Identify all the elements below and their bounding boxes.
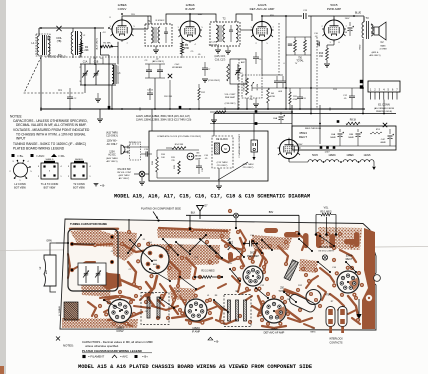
wire E1 drop [383,100,385,114]
wire cluster drop [154,78,156,109]
copper trace 6 [146,276,157,296]
svg-text:470K: 470K [270,96,276,98]
clock circuits box [149,131,268,181]
capacitor C17 pcb [249,241,251,247]
copper trace 17 [108,312,142,320]
svg-text:120V: 120V [298,144,303,146]
copper trace 7 [170,262,180,286]
svg-text:(A15 &: (A15 & [372,51,379,54]
svg-text:12AV6: 12AV6 [364,154,372,157]
svg-text:LAMP: LAMP [195,158,201,161]
svg-text:IF 455KC: IF 455KC [156,20,165,22]
volume control box [242,75,262,98]
svg-text:T2 CONN: T2 CONN [73,182,85,186]
svg-text:CONV: CONV [118,7,127,11]
capacitor C5 div [288,43,292,45]
tube V3 12AV6 det-AVC-AF amp [253,22,272,41]
crossover X1 [56,26,61,31]
svg-text:(C15 THRU: (C15 THRU [217,162,228,164]
ground T1 [153,49,159,51]
pad 49 [356,318,360,322]
legend B+ symbol [12,154,15,157]
svg-text:110V: 110V [345,18,350,20]
svg-text:VOLUME: VOLUME [244,82,246,92]
interlock contact 2 [338,307,347,327]
svg-text:T1 & T2 CONN: T1 & T2 CONN [41,182,59,186]
svg-text:ON-OFF SW: ON-OFF SW [117,169,131,171]
pad 40 [350,266,354,270]
wire 35w4 b [319,105,321,144]
svg-text:12AV6, 12BA6, 12BE6, 35W4, 50C: 12AV6, 12BA6, 12BE6, 35W4, 50C5 (A15, A1… [136,115,190,118]
copper trace 25 [348,296,358,316]
pad 38 [314,268,318,272]
tube V2 12BA6 IF amplifier [180,21,200,41]
pad 3 [110,235,114,239]
wire L1 gnd drop [40,55,42,109]
wire T1 gnd [155,46,157,49]
svg-text:= AVC: = AVC [36,154,45,158]
wire grid rail [100,32,102,55]
capacitor C9 v3 [253,56,259,58]
pad 54 [295,231,299,235]
pad 42 [94,314,98,318]
svg-text:ANT: ANT [45,269,48,274]
wire plug to box lower [128,151,141,153]
svg-text:ON VOL CONT: ON VOL CONT [117,172,132,174]
svg-text:(C15 THRU: (C15 THRU [243,164,254,166]
capacitor C4a sym [147,92,153,94]
svg-text:PLATED CHASSIS BOARD WIRING LE: PLATED CHASSIS BOARD WIRING LEGEND [82,349,142,353]
pad 20 [304,273,308,277]
corner mark [0,366,4,374]
pad 14 [262,270,266,274]
svg-text:BOT VIEW: BOT VIEW [73,187,85,190]
svg-text:R10: R10 [319,53,324,55]
svg-text:470K: 470K [325,295,331,297]
svg-text:MODEL A15, A16, A17, C15, C16,: MODEL A15, A16, A17, C15, C16, C17, C18 … [114,194,310,200]
copper trace 24 [330,294,344,306]
svg-text:C1A: C1A [83,61,88,64]
resistor R3 screen [180,42,183,54]
svg-text:DECIMAL VALUES IN MF, ALL OTHE: DECIMAL VALUES IN MF, ALL OTHERS IN MMF. [16,123,87,127]
svg-text:DE CLOCK: DE CLOCK [216,139,228,141]
IF transformer T2 box [210,22,240,46]
svg-text:40MF: 40MF [380,142,386,144]
wire t1 drop2 [169,80,171,109]
pad 33 [208,298,212,302]
heater coil 12AV6 [360,160,374,162]
svg-text:(A15 THRU: (A15 THRU [119,174,130,177]
svg-text:C6A: C6A [273,117,278,120]
wire T2 out to V3 [236,14,252,22]
wire outlet [253,152,255,160]
wire V3 cath [261,41,263,75]
svg-text:IF AMP: IF AMP [192,331,201,334]
ground switch [139,181,145,183]
svg-text:12BA6: 12BA6 [328,154,336,157]
copper bottom row traces [100,296,130,298]
heater coil 50C5 [308,160,322,162]
resistor R16 [156,157,159,172]
pad 11 [192,276,196,280]
svg-text:= B+: = B+ [17,154,24,158]
svg-text:IF AMP: IF AMP [185,7,195,11]
svg-text:(C18 ONLY): (C18 ONLY) [225,103,236,105]
svg-text:95V: 95V [131,14,135,16]
pad 27 [260,252,264,256]
copper trace 1 [72,244,112,245]
copper trace 18 [152,306,178,310]
neon lamp B6 [187,153,194,160]
wire V1 plate to T1 [122,16,151,24]
wire clock drop [218,168,220,185]
copper trace 12 [278,246,288,264]
wire clock box top [149,146,157,148]
T4 inner pads [148,251,153,256]
svg-text:(A15, C15,: (A15, C15, [215,55,226,58]
svg-text:R5 1 MEG: R5 1 MEG [320,210,331,213]
svg-text:TUNING RANGE - 540KC TO 1620KC: TUNING RANGE - 540KC TO 1620KC (IF - 455… [13,142,86,146]
svg-text:C19 ONLY): C19 ONLY) [243,167,254,169]
connector T2 CONN [71,163,87,179]
C13 cap bars [147,297,150,318]
wire heater right drop [373,162,375,166]
copper dither mid right [252,235,292,250]
pad 31 [160,294,164,298]
pad ring V4 socket [265,277,269,281]
wire B+ horizontal [252,87,363,89]
svg-text:C18 ONLY: C18 ONLY [209,45,220,47]
svg-text:C6A: C6A [331,133,336,136]
svg-text:SHIELD: SHIELD [46,159,54,161]
svg-text:R8 1K: R8 1K [350,120,357,122]
svg-text:PER SHIP: PER SHIP [225,97,236,99]
pad 29 [198,275,202,279]
legend2 B- [208,337,213,340]
copper dither bottom mid [170,287,196,301]
wire gang drop [111,85,113,109]
wire antenna top [39,27,104,29]
copper pad extras [127,230,131,234]
copper bottom squiggles 2 [88,302,96,316]
T2 windings [216,25,218,42]
svg-text:NEON: NEON [195,156,202,158]
pad 15 [284,262,288,266]
electrolytic C4C [388,135,393,137]
pad 47 [280,296,284,300]
svg-text:B6V: B6V [269,211,274,214]
copper trace strip top edge [159,228,227,231]
wire switch [134,173,139,175]
AVC drop dashed 3 [316,37,318,109]
copper notch hole [374,275,381,282]
clock box dashed [212,136,233,168]
volume pot bracket [288,293,317,313]
capacitor C10 v4 [317,42,319,46]
wire c11 stub [299,88,301,92]
svg-text:22K: 22K [84,49,89,52]
legend AVC symbol [31,154,34,157]
electrolytic C6B [356,133,361,135]
wire top rail link [262,15,302,17]
trimmer C1B [95,64,97,73]
svg-text:(AS VIEWED FROM: (AS VIEWED FROM [374,107,394,110]
wire e7 drop [235,218,237,228]
ground gang [95,98,101,100]
wire filter box bus [292,145,396,147]
svg-text:CONTACTS: CONTACTS [330,342,343,345]
copper trace 26 [240,230,246,250]
connector L2 bracket [50,243,56,292]
wire B- stub [99,109,101,118]
wire v5 link [288,159,290,162]
resistor R14 [172,147,186,150]
ground clock [216,185,222,187]
wire B+ red drop [362,39,364,114]
copper dither right patch [318,227,362,250]
ganging dashes C1 [24,57,85,93]
PCB board outline [60,219,376,330]
svg-text:470K: 470K [293,99,298,101]
tube V5 35W4 rectifier [280,140,299,159]
svg-text:PWR AMP: PWR AMP [247,255,259,258]
pad 48 [350,288,354,292]
svg-text:COMPLETE CLOCK (C15 THRU C19 O: COMPLETE CLOCK (C15 THRU C19 ONLY) [157,136,201,138]
copper trace 15 [340,250,356,262]
crossover X2 [168,74,172,78]
copper trace 4 [122,244,148,252]
tube V4 50C5 power amp [324,20,344,40]
pad 46 [266,292,270,296]
resistor R17 line [215,111,226,113]
svg-text:ON-OFF SW: ON-OFF SW [319,247,333,249]
wire heater left [289,161,308,163]
pad 41 [98,304,102,308]
ground R10 [324,63,330,65]
plus mark bottom left [56,337,60,341]
capacitor C13 coupling [303,13,305,19]
pad 50 [328,320,332,324]
copper wavy right of mass [240,238,244,266]
resistor R6 divider [294,40,297,52]
svg-text:PLATED BOARD WIRING LEGEND: PLATED BOARD WIRING LEGEND [13,147,65,151]
copper dither bottom strip [62,318,138,328]
copper wavy center bottom [146,282,154,306]
svg-text:M: M [224,147,226,151]
filter box [292,126,396,150]
svg-text:A16 ONLY): A16 ONLY) [369,54,380,57]
pad 19 [301,267,305,271]
pad ring T4 can [168,266,172,270]
svg-text:WORKER: WORKER [172,67,182,69]
svg-text:ON VOL CONTR: ON VOL CONTR [318,251,334,253]
svg-text:C4C: C4C [381,139,386,141]
svg-text:= FILAMENT: = FILAMENT [88,355,105,359]
connector E1 pins [370,92,372,100]
resistor R1 39K [101,45,112,48]
switch S1 on-off [139,171,145,177]
wire det drop [237,84,239,109]
page left margin strip [0,0,6,374]
wire 35w4 plate [291,105,293,139]
ground v3 [253,103,259,105]
svg-text:RECT: RECT [346,258,353,261]
svg-text:C19 ONLY): C19 ONLY) [106,136,118,138]
capacitor c12 sym [349,95,355,97]
heater coil 12BA6 [325,160,339,162]
svg-text:R3 2.2M: R3 2.2M [164,96,172,98]
pad 6 [120,242,124,246]
pad 24 [232,267,236,271]
ground mid1 [202,78,208,80]
svg-text:C 202: C 202 [211,42,218,44]
svg-text:RED: RED [360,44,362,49]
pad 13 [242,248,246,252]
AVC drop dashed 1 [238,59,240,109]
heater coil 12BE6 [343,160,357,162]
svg-text:BLUE: BLUE [355,13,361,15]
copper pill 7 [264,228,278,233]
copper trace 21 [258,296,262,316]
trimmer C1A [84,64,86,73]
wire rail tops [285,16,287,37]
svg-text:NOTES:: NOTES: [63,344,74,348]
copper trace 9 [216,256,238,262]
svg-text:BLK: BLK [191,211,196,214]
svg-text:AC-DC: AC-DC [108,154,116,157]
copper trace 22 [282,306,300,320]
pad 1 [70,242,74,246]
speaker SP1 [374,27,379,35]
copper trace 29 [68,254,70,278]
pad ring V2 socket [208,311,212,315]
resistor R15 [178,161,181,174]
pad 4 [110,260,114,264]
resistor R4b [267,88,270,103]
resistor R10 cathode [326,48,329,60]
copper trace 19 [186,318,212,322]
resistor R4 [227,64,230,81]
pad 16 [316,232,320,236]
svg-text:C6B: C6B [349,134,354,136]
box det components [230,59,246,84]
capacitor C2b [67,96,73,98]
pad 28 [268,244,272,248]
legend FIL symbol [51,154,57,157]
wire T3 top [358,15,364,17]
svg-text:TO CHASSIS WITH A VTVM. ± 10%: TO CHASSIS WITH A VTVM. ± 10% NO SIGNAL [16,133,86,137]
label frame pads [71,243,73,245]
svg-text:(A15 THRU: (A15 THRU [106,132,118,135]
svg-text:A17 ONLY): A17 ONLY) [106,160,117,163]
svg-text:BOT VIEW: BOT VIEW [14,187,26,190]
copper dither tuning frame top [70,229,118,247]
coil L3 [112,65,114,84]
wire rail A [285,37,287,109]
svg-text:L2 CONN: L2 CONN [14,182,25,186]
svg-text:INTERLOCK: INTERLOCK [329,338,343,341]
copper right border band [362,228,375,329]
svg-text:C4 .05: C4 .05 [147,90,154,92]
svg-text:C19 ONLY): C19 ONLY) [217,165,228,167]
resistor R8 [346,122,360,125]
copper trace 27 [296,232,306,250]
copper screw hole [366,295,372,301]
resistor RY1 wavy [370,132,382,134]
tuning frame outline [68,229,118,291]
resistor R11b [289,92,291,104]
svg-text:VOLTAGES - MEASURED FROM POINT: VOLTAGES - MEASURED FROM POINT INDICATED [13,128,90,132]
arrow plating [153,212,158,220]
copper pill 3 [330,234,336,248]
wire feed x152 [151,109,153,131]
pad 2 [70,268,74,272]
copper trace 8 [186,258,196,278]
svg-text:CONV: CONV [116,330,124,333]
svg-text:120V: 120V [324,152,330,154]
svg-text:(C18 ONLY): (C18 ONLY) [208,80,220,82]
interlock stems [329,327,332,334]
copper dither center mass [148,244,220,280]
copper pill 6 [228,252,233,261]
capacitor C15b [196,165,202,167]
copper trace 11 [258,250,266,272]
svg-text:470K: 470K [184,48,190,50]
wire drop x129 [128,219,130,231]
fold line [0,247,428,251]
svg-text:100V: 100V [198,14,203,16]
pad 22 [190,228,194,232]
wire bus left end [40,107,42,111]
copper pill 5 [354,232,360,247]
pad 26 [251,240,255,244]
wire det link [262,74,283,76]
svg-text:C1: C1 [58,88,62,92]
pad 34 [220,320,224,324]
copper dither left mass [112,231,137,261]
capacitor C14 [348,27,353,29]
svg-text:E1 CONN: E1 CONN [378,103,390,107]
pad 7 [146,248,150,252]
junction squares heater [320,146,323,149]
svg-text:R5 1M: R5 1M [257,84,259,91]
svg-text:INTERLOCK: INTERLOCK [129,142,142,144]
pad 25 [220,234,224,238]
svg-text:DET-AVC-AF AMP: DET-AVC-AF AMP [250,7,275,11]
pad 36 [286,292,290,296]
copper trace 14 [320,268,334,282]
copper pill 4 [344,239,357,245]
svg-text:12AV6, 12BA6, 12BE6, 35W4, 50C: 12AV6, 12BA6, 12BE6, 35W4, 50C5 (C15 THR… [136,119,192,122]
copper dither 50c5 patch [195,249,216,265]
ground arrow pcb [358,299,360,314]
volume pot R5 [246,78,249,95]
E2 cap bars [228,300,231,321]
wire gang bus [80,63,116,65]
pad 53 [188,227,192,231]
svg-text:C1B: C1B [94,62,99,64]
tube V1 12BE6 converter [112,20,132,40]
trimmer box C1 [78,263,106,285]
heater junction dots [323,161,325,163]
ground 35w4 line [211,119,217,121]
svg-text:= B+: = B+ [142,355,148,359]
svg-text:SHIELD: SHIELD [75,159,83,161]
copper dither diamond [299,259,318,273]
svg-text:= B-: = B- [100,184,105,188]
wire line y123 [210,123,292,125]
pad 52 [228,209,232,213]
